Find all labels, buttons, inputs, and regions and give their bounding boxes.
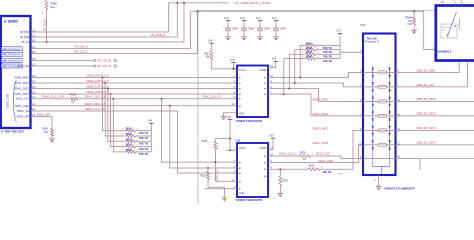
wire tap R545	[105, 83, 126, 136]
svg-text:3V3: 3V3	[336, 29, 341, 33]
wire card-detect long	[191, 11, 436, 49]
wire 1V8 rail bankB	[150, 123, 152, 152]
wire U45 VCCB	[268, 61, 276, 67]
svg-text:SDM_SD_CMD: SDM_SD_CMD	[416, 68, 435, 72]
wire tap R573	[108, 89, 126, 142]
junction top bus 2	[183, 2, 185, 4]
junction U46 VCCA	[229, 149, 231, 151]
wire J21 top stub 2	[461, 2, 463, 6]
svg-text:SDHC_CLK_1R: SDHC_CLK_1R	[202, 95, 221, 99]
svg-text:SDHC_CMD: SDHC_CMD	[15, 105, 29, 108]
wire R584A bottom	[413, 25, 415, 30]
capacitor C401	[273, 28, 279, 30]
wire tap R547	[289, 54, 306, 88]
wire R573 to rail	[136, 140, 152, 142]
svg-text:SDHC_CD_1: SDHC_CD_1	[217, 167, 219, 181]
resistor R543	[51, 129, 54, 137]
wire shield to edge	[396, 158, 474, 160]
wire U46 VCCB	[268, 138, 273, 149]
wire R521 top	[279, 169, 281, 176]
svg-text:3V3: 3V3	[271, 57, 276, 61]
bubble H5	[94, 59, 96, 61]
wire CLK label seg	[268, 155, 300, 157]
svg-text:R573: R573	[126, 137, 133, 141]
wire DAT3a to ESD	[268, 94, 363, 116]
wire R575 to rail	[136, 151, 152, 153]
J21 card detect sw outline	[441, 24, 457, 38]
SoC boxed label 3	[1, 59, 22, 63]
ESD channel 0 filter	[363, 71, 396, 73]
resistor R545	[126, 135, 136, 138]
resistor R530	[309, 168, 320, 171]
svg-text:SDHC_DAT0: SDHC_DAT0	[313, 97, 329, 101]
svg-text:T9K 7N: T9K 7N	[323, 50, 332, 54]
wire R546 to rail	[316, 49, 341, 51]
level shifter U46 box	[237, 143, 268, 197]
junction CD bus	[196, 10, 198, 12]
svg-text:GND: GND	[239, 193, 244, 195]
bubble L5	[94, 65, 96, 67]
svg-text:R528: R528	[202, 140, 208, 143]
svg-text:SDHC_CLK_1_4R: SDHC_CLK_1_4R	[42, 95, 64, 99]
wire DAT0a to ESD	[268, 72, 363, 77]
svg-text:SDHC_DAT2: SDHC_DAT2	[313, 126, 329, 130]
power 1V8 R417	[209, 42, 214, 44]
svg-text:SDHC_DAT2_1_8: SDHC_DAT2_1_8	[86, 84, 109, 88]
svg-text:T9K 7N: T9K 7N	[139, 147, 148, 151]
power 1V8 for C402	[226, 20, 231, 22]
junction tap R547	[288, 88, 290, 90]
wire ESD gnd	[378, 175, 380, 187]
junction R528/1V8	[229, 138, 231, 140]
wire C403 top	[259, 21, 261, 29]
svg-text:1V8: 1V8	[208, 38, 213, 42]
svg-text:R546: R546	[306, 46, 313, 50]
ground R584A	[412, 29, 417, 31]
level shifter U45 box	[237, 66, 268, 118]
svg-text:VP_CID_B: VP_CID_B	[97, 59, 111, 63]
wire tap R575	[113, 99, 126, 152]
svg-text:T9K 7N: T9K 7N	[139, 142, 148, 146]
wire SDHC_WP	[31, 117, 52, 129]
svg-text:› SD_CARD_DET#_1_8 R7P: › SD_CARD_DET#_1_8 R7P	[233, 1, 271, 5]
wire E3 row	[31, 11, 191, 48]
wire CMD to U46	[170, 106, 237, 168]
svg-text:VCCA: VCCA	[239, 69, 246, 72]
svg-text:R575: R575	[126, 148, 133, 152]
wire R541 to rail	[136, 130, 152, 132]
resistor R542	[306, 44, 316, 47]
svg-text:SDM_SD_DAT2: SDM_SD_DAT2	[416, 126, 436, 130]
ESD diodes ch2 x389.6	[389, 97, 391, 106]
wire U46 pin1 row	[226, 149, 237, 151]
svg-text:SDHC_WP: SDHC_WP	[37, 113, 51, 117]
ground R521	[278, 193, 283, 195]
junction tap R546	[294, 82, 296, 84]
wire R417 to VCCA row	[212, 60, 238, 69]
SoC boxed label 1	[1, 47, 22, 51]
power 1V8 bankB	[149, 122, 154, 124]
ESD channel 3 filter	[363, 115, 396, 117]
wire R521 gnd	[279, 186, 281, 194]
svg-text:R545: R545	[126, 132, 133, 136]
wire SDHC_DAT3_1_8	[31, 93, 237, 95]
SoC boxed label 2	[1, 52, 22, 56]
resistor R568	[45, 1, 48, 10]
junction CD vert	[215, 161, 217, 163]
wire R528 wires	[215, 139, 217, 142]
wire 1V8 to VCCA	[229, 120, 231, 151]
wire H5 row	[31, 60, 94, 62]
svg-text:1V8: 1V8	[240, 16, 245, 20]
resistor R521	[279, 176, 282, 186]
svg-text:VCCB: VCCB	[259, 147, 266, 150]
svg-text:1V8: 1V8	[147, 118, 152, 122]
wire tap R542	[300, 45, 306, 77]
svg-text:3V3: 3V3	[272, 16, 277, 20]
wire SDHC_DAT2_1_8	[31, 88, 237, 90]
ESD diodes ch0 x389.6	[389, 68, 391, 77]
wire SDHC_CD routed	[31, 111, 237, 173]
wire C401 bottom	[275, 30, 277, 37]
svg-text:VR_101_A: VR_101_A	[74, 49, 88, 53]
wire R542 to rail	[316, 44, 341, 46]
junction CD/R584A	[413, 10, 415, 12]
ground C401	[273, 36, 278, 38]
svg-text:VP_B05: VP_B05	[20, 31, 30, 34]
wire R532 top	[207, 168, 209, 172]
svg-text:VP_101_B: VP_101_B	[97, 64, 111, 68]
wire SDM_SD_CLK	[396, 62, 468, 87]
svg-text:C406: C406	[248, 28, 255, 31]
resistor R540	[70, 97, 78, 100]
svg-text:SW: SW	[442, 30, 445, 32]
wire R545 to rail	[136, 135, 152, 137]
wire L5 row	[31, 65, 94, 67]
resistor R417	[210, 51, 213, 61]
ground ESD	[376, 186, 381, 188]
capacitor C402	[225, 28, 231, 30]
resistor R546	[306, 48, 316, 51]
svg-text:SDHC_DAT0: SDHC_DAT0	[14, 77, 29, 80]
wire R548 to rail	[316, 58, 341, 60]
svg-text:2: 2	[255, 31, 256, 33]
wire U45 gnd	[224, 113, 238, 117]
svg-text:SW10M#2.6: SW10M#2.6	[438, 51, 452, 54]
svg-text:SDHC_DAT0_1_8: SDHC_DAT0_1_8	[86, 73, 109, 77]
junction R521 tap	[279, 168, 281, 170]
wire R543 to gnd	[51, 136, 53, 139]
resistor R584A	[413, 17, 416, 25]
junction tap R575	[112, 98, 114, 100]
ESD diodes ch4 x372.8	[372, 126, 374, 135]
svg-text:R530: R530	[309, 165, 315, 168]
svg-text:SDM_SD_CLK: SDM_SD_CLK	[416, 83, 434, 87]
wire U46 pin12 row	[216, 180, 238, 182]
svg-text:U TBD TBD SEC: U TBD TBD SEC	[1, 130, 25, 134]
power 3V3 for C401	[274, 20, 279, 22]
svg-text:C401: C401	[280, 28, 287, 31]
ESD diodes ch4 x389.6	[389, 126, 391, 135]
svg-text:R521: R521	[283, 180, 289, 183]
svg-text:2: 2	[271, 31, 272, 33]
wire CMD seg	[268, 168, 309, 170]
svg-text:SDHC_CLK_1: SDHC_CLK_1	[279, 152, 296, 156]
svg-text:1: 1	[239, 27, 240, 29]
wire SDM_SD_DAT1	[396, 115, 474, 117]
svg-text:R532: R532	[200, 175, 206, 178]
svg-text:VP_B06: VP_B06	[20, 36, 30, 39]
wire U46 r2 to ESD	[268, 145, 363, 163]
wire tap R541	[103, 78, 127, 131]
svg-text:227: 227	[71, 101, 76, 104]
svg-text:3V3: 3V3	[256, 16, 261, 20]
resistor R528	[214, 142, 217, 150]
ESD shield stub right	[396, 159, 421, 171]
wire R528 top link	[216, 138, 231, 140]
wire SDHC_CLK left	[31, 98, 70, 100]
resistor R529	[300, 155, 311, 158]
resistor R574	[126, 145, 136, 148]
svg-text:SDHC_CD_1_8: SDHC_CD_1_8	[86, 107, 105, 111]
svg-text:SDHC_CMD: SDHC_CMD	[318, 159, 333, 163]
wire B2 row	[31, 3, 184, 42]
wire R574 to rail	[136, 146, 152, 148]
power 3V3 bankA	[338, 32, 343, 34]
SoC brace	[14, 80, 17, 122]
svg-text:VR_SD_B2: VR_SD_B2	[44, 19, 46, 31]
wire SDM_SD_DAT0	[396, 100, 474, 102]
resistor R573	[126, 140, 136, 143]
wire CLK to ESD	[311, 156, 364, 159]
svg-text:R574: R574	[126, 143, 133, 147]
svg-text:T9K 7N: T9K 7N	[323, 59, 332, 63]
ESD diodes ch2 x372.8	[372, 97, 374, 106]
ESD diode rail left	[372, 67, 374, 167]
resistor R532	[207, 172, 210, 180]
svg-text:C402: C402	[232, 28, 239, 31]
wire C402 top	[227, 21, 229, 29]
wire C403 bottom	[259, 30, 261, 37]
wire DAT2a to ESD	[268, 89, 363, 102]
svg-text:1V8: 1V8	[224, 16, 229, 20]
SoC boxed label 4	[1, 64, 22, 68]
power 1V8 U45 flag	[231, 62, 236, 64]
wire U46 pin3 row	[204, 188, 237, 190]
svg-text:T9K 7N: T9K 7N	[323, 46, 332, 50]
svg-text:2: 2	[223, 31, 224, 33]
ground C406	[241, 36, 246, 38]
svg-text:SMP_be5: SMP_be5	[18, 65, 30, 68]
capacitor C403	[257, 28, 263, 30]
svg-text:39K: 39K	[206, 55, 211, 58]
svg-text:SP3634 TXB0404UTR: SP3634 TXB0404UTR	[236, 198, 262, 202]
svg-text:10K: 10K	[44, 131, 49, 134]
ESD shield row	[363, 158, 396, 160]
power 3V3 for C403	[258, 20, 263, 22]
resistor R541	[126, 129, 136, 132]
svg-text:U76: U76	[360, 23, 366, 27]
junction CLK1 tap	[161, 98, 163, 100]
junction R532 tap	[207, 167, 209, 169]
svg-text:VCCB: VCCB	[259, 69, 266, 72]
ESD channel 1 filter	[363, 86, 396, 88]
wire rail to ESD vcc	[340, 51, 363, 53]
svg-text:VR_ACD_R: VR_ACD_R	[151, 33, 166, 37]
ESD diode rail right	[389, 67, 391, 167]
svg-text:C403: C403	[264, 28, 271, 31]
capacitor C406	[241, 28, 247, 30]
wire J21 top stub 1	[454, 2, 456, 6]
ESD IC U76 box	[363, 34, 396, 176]
svg-text:R529: R529	[300, 151, 306, 154]
svg-text:T9K 7N: T9K 7N	[323, 171, 332, 174]
svg-text:DNP: DNP	[407, 23, 412, 26]
J21 switch lever	[447, 12, 457, 37]
svg-text:2: 2	[239, 31, 240, 33]
svg-text:SDHC_DAT2: SDHC_DAT2	[14, 88, 29, 91]
wire C406 top	[243, 21, 245, 29]
svg-text:R541: R541	[126, 127, 133, 131]
ESD diodes ch0 x372.8	[372, 68, 374, 77]
ESD diodes ch3 x372.8	[372, 111, 374, 120]
svg-text:1: 1	[255, 27, 256, 29]
svg-text:T9K 7N: T9K 7N	[323, 55, 332, 59]
wire SDM_SD_DAT2	[396, 129, 474, 131]
ESD diodes ch3 x389.6	[389, 111, 391, 120]
wire SDHC_DAT0_1_8	[31, 77, 237, 79]
svg-text:SDM_SD_DAT0: SDM_SD_DAT0	[416, 97, 436, 101]
svg-text:SDHC_CD: SDHC_CD	[17, 110, 29, 113]
junction tap R542	[299, 77, 301, 79]
wire SDM_SD_DAT3	[396, 144, 474, 146]
wire 3V3 rail bankA	[339, 33, 341, 58]
svg-text:VR_CID_A: VR_CID_A	[74, 44, 88, 48]
svg-text:SDMC_SDIO: SDMC_SDIO	[7, 94, 10, 108]
svg-text:GND: GND	[239, 114, 244, 116]
ESD channel 2 filter	[363, 100, 396, 102]
svg-text:VCCA: VCCA	[239, 147, 246, 150]
junction top bus 1	[176, 2, 178, 4]
ESD diodes ch1 x389.6	[389, 82, 391, 91]
svg-text:SDM_SD_DAT3: SDM_SD_DAT3	[416, 141, 436, 145]
resistor R575	[126, 151, 136, 154]
power 1V8 U46	[228, 119, 233, 121]
svg-text:GMP_TXT_Bssec: GMP_TXT_Bssec	[2, 49, 20, 51]
wire R532 to gnd bus	[208, 180, 225, 198]
wire tap R548	[284, 59, 306, 94]
wire CLK to U46	[162, 99, 238, 162]
group frame (grey)	[198, 10, 436, 203]
J21 switch contact 2	[454, 25, 456, 27]
svg-text:SDHC_DAT3: SDHC_DAT3	[313, 141, 329, 145]
svg-text:Protection IC: Protection IC	[365, 41, 380, 44]
ESD diodes ch1 x372.8	[372, 82, 374, 91]
ground U45	[221, 116, 226, 118]
junction tap R541	[102, 77, 104, 79]
svg-text:SDHC_DAT1: SDHC_DAT1	[14, 82, 29, 85]
power 3V3 U45	[273, 60, 278, 62]
svg-text:SDHC_DAT3: SDHC_DAT3	[14, 93, 29, 96]
svg-text:1: 1	[271, 27, 272, 29]
svg-text:SDHC_CLK: SDHC_CLK	[316, 152, 330, 156]
svg-text:T9K 7N: T9K 7N	[139, 131, 148, 135]
power 1V8 for C406	[242, 20, 247, 22]
wire C406 bottom	[243, 30, 245, 37]
svg-text:R568: R568	[51, 1, 58, 5]
svg-text:R542: R542	[306, 41, 313, 45]
svg-text:221: 221	[51, 5, 56, 9]
wire C2 row	[31, 3, 229, 32]
ESD channel 5 filter	[363, 144, 396, 146]
SoC U_TBD box	[1, 16, 31, 128]
svg-text:T9K 7N: T9K 7N	[139, 136, 148, 140]
resistor R548	[306, 57, 316, 60]
wire R528 bottom	[215, 150, 217, 182]
wire R568 to row B2	[46, 10, 48, 43]
wire C401 top	[275, 21, 277, 29]
svg-text:1V8: 1V8	[230, 58, 235, 62]
resistor R547	[306, 53, 316, 56]
wire SDM_SD_CMD	[396, 62, 460, 72]
junction tap R574	[110, 93, 112, 95]
symbol L5 circle	[114, 65, 117, 68]
wire SDHC_CMD row	[31, 105, 237, 107]
junction tap R545	[104, 82, 106, 84]
ESD diodes ch5 x389.6	[389, 140, 391, 149]
svg-text:1: 1	[223, 27, 224, 29]
wire tap R574	[111, 94, 126, 147]
SD connector J21 box	[436, 6, 474, 61]
wire SDHC_DAT1_1_8	[31, 82, 237, 84]
wire SDHC_CLK right	[78, 98, 237, 100]
J21 switch contact 1	[447, 34, 449, 36]
ESD diodes ch5 x372.8	[372, 140, 374, 149]
ground U46 (olive)	[222, 197, 227, 199]
svg-text:R540: R540	[70, 94, 77, 97]
svg-text:3V3: 3V3	[269, 133, 274, 137]
wire tap R546	[295, 50, 306, 83]
svg-text:SDHC_WP: SDHC_WP	[16, 116, 29, 119]
svg-text:GMP_TXT_Bssec: GMP_TXT_Bssec	[2, 54, 20, 56]
wire C402 bottom	[227, 30, 229, 37]
svg-text:Card Detect: Card Detect	[458, 19, 461, 30]
junction CMD1 tap	[169, 105, 171, 107]
ESD bottom rail	[373, 167, 390, 176]
svg-text:R547: R547	[306, 50, 313, 54]
junction tap R573	[107, 88, 109, 90]
svg-text:VP_C4: VP_C4	[21, 41, 30, 44]
svg-text:SP3634 TXB0404UTR: SP3634 TXB0404UTR	[236, 119, 262, 123]
ground C403	[257, 36, 262, 38]
wire R584A top	[413, 11, 415, 17]
wire DAT1a to ESD	[268, 83, 363, 87]
junction VCCA row	[233, 68, 235, 70]
wire CMD to ESD	[320, 130, 363, 169]
svg-text:GMP_TXT_Bssec: GMP_TXT_Bssec	[2, 61, 20, 63]
ground R543	[49, 138, 54, 140]
wire 1V8 flag stub	[233, 63, 235, 69]
svg-text:T9K 7N: T9K 7N	[139, 152, 148, 156]
junction tap R548	[283, 93, 285, 95]
ground C402	[225, 36, 230, 38]
svg-text:SDHC_CLK: SDHC_CLK	[16, 98, 30, 101]
svg-text:R548: R548	[306, 55, 313, 59]
junction R568/B2	[46, 41, 48, 43]
power 3V3 U46	[271, 137, 276, 139]
svg-text:SP9010T ECLAMP2457P: SP9010T ECLAMP2457P	[385, 186, 415, 190]
svg-text:J21: J21	[441, 0, 446, 4]
